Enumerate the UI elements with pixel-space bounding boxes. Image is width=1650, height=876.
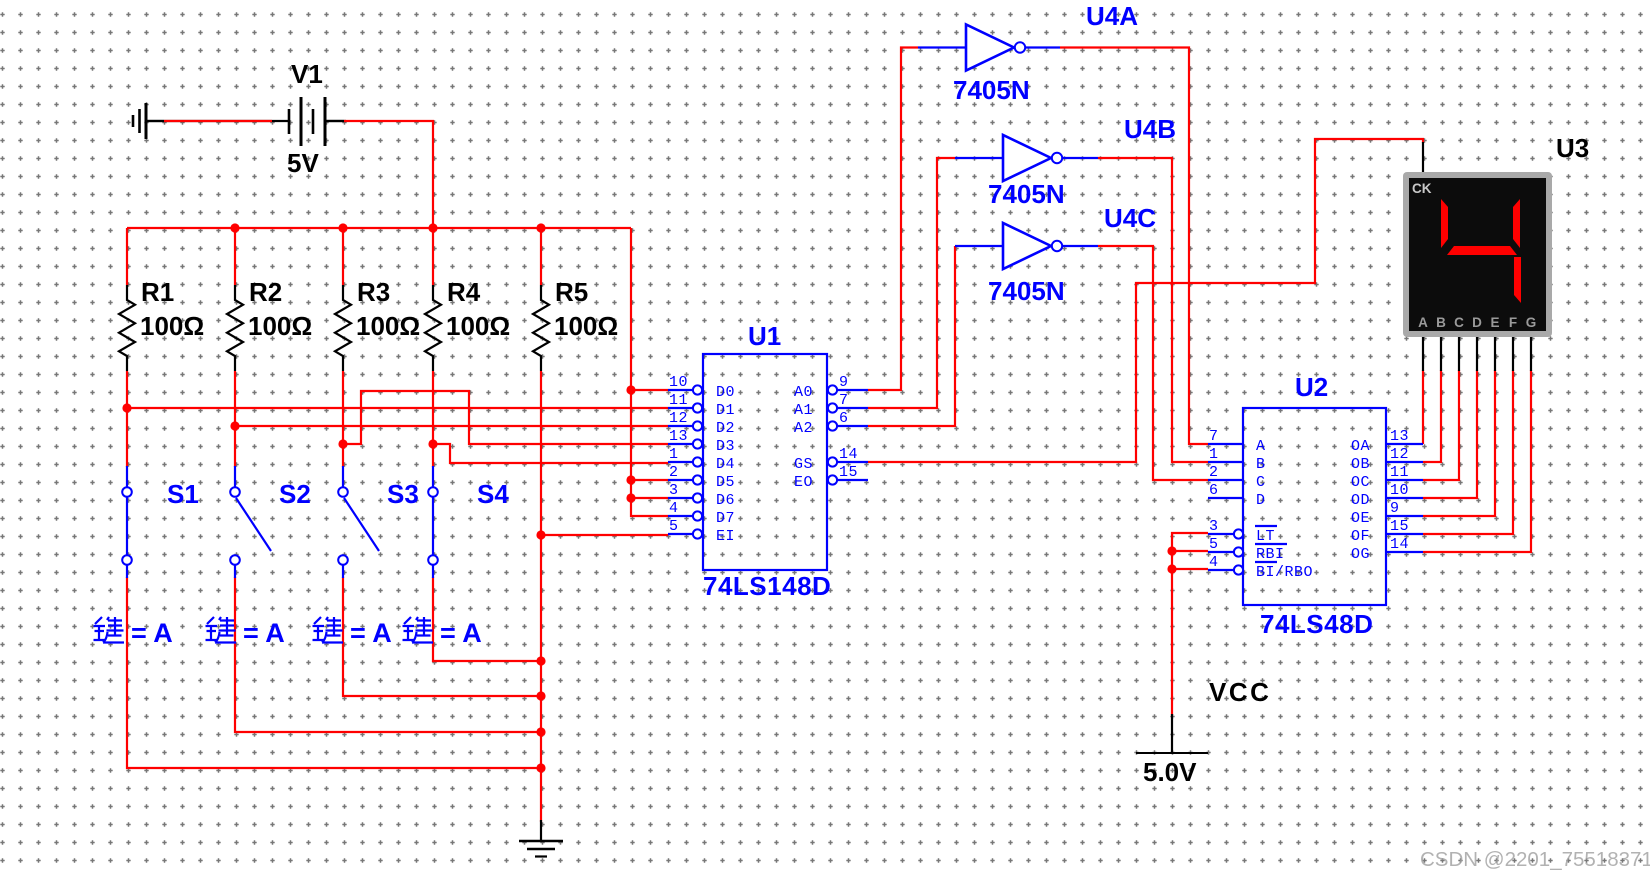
svg-text:7: 7 xyxy=(1209,428,1219,445)
junction D3/S3 xyxy=(338,439,347,448)
svg-text:U3: U3 xyxy=(1556,133,1589,163)
svg-text:2: 2 xyxy=(1209,464,1219,481)
wire U4B output to U2 pin B xyxy=(1098,158,1208,462)
switch S2 (open) xyxy=(230,466,311,578)
svg-text:100Ω: 100Ω xyxy=(446,311,510,341)
U2 pin 12 OB xyxy=(1351,446,1423,473)
IC U2 74LS48D body xyxy=(1243,372,1386,639)
wire R5 bottom to ground xyxy=(540,371,542,822)
wire D2 net xyxy=(235,425,668,427)
svg-text:9: 9 xyxy=(1390,500,1400,517)
svg-text:D6: D6 xyxy=(716,492,735,509)
wire OD to display pin D xyxy=(1423,337,1477,498)
svg-text:OD: OD xyxy=(1351,492,1370,509)
svg-text:R3: R3 xyxy=(357,277,390,307)
U2 pin 4 BI/RBO xyxy=(1208,554,1313,581)
svg-text:11: 11 xyxy=(1390,464,1409,481)
U1 pin 13 D3 xyxy=(668,428,735,455)
U2 pin 10 OD xyxy=(1351,482,1423,509)
U1 pin 1 D4 xyxy=(668,446,735,473)
label key S4 (键 = A) xyxy=(403,617,482,648)
svg-text:7405N: 7405N xyxy=(988,276,1065,306)
U2 pin 1 B xyxy=(1208,446,1266,473)
svg-text:100Ω: 100Ω xyxy=(554,311,618,341)
svg-text:V1: V1 xyxy=(291,59,323,89)
U2 pin 2 C xyxy=(1208,464,1266,491)
wire D1 net xyxy=(127,407,668,409)
svg-text:C: C xyxy=(1454,315,1464,330)
label key S1 (键 = A) xyxy=(94,617,173,648)
svg-text:OG: OG xyxy=(1351,546,1370,563)
svg-text:R5: R5 xyxy=(555,277,588,307)
wire R3 bottom to S3 xyxy=(342,371,344,467)
svg-text:D5: D5 xyxy=(716,474,735,491)
svg-text:S3: S3 xyxy=(387,479,419,509)
display pin letters xyxy=(1418,315,1536,330)
svg-text:D4: D4 xyxy=(716,456,735,473)
junction S4 ground bus xyxy=(536,656,545,665)
resistor R1 xyxy=(119,277,204,371)
svg-text:12: 12 xyxy=(669,410,688,427)
svg-text:R2: R2 xyxy=(249,277,282,307)
svg-text:OC: OC xyxy=(1351,474,1370,491)
wire battery positive to +5V rail xyxy=(325,121,433,228)
svg-text:BI/RBO: BI/RBO xyxy=(1256,564,1313,581)
U1 pin 14 GS xyxy=(794,446,868,473)
svg-text:11: 11 xyxy=(669,392,688,409)
svg-text:74LS148D: 74LS148D xyxy=(703,571,831,601)
U2 pin 14 OG xyxy=(1351,536,1423,563)
wire A1 to U4B input xyxy=(868,158,955,408)
switch S1 (closed) xyxy=(122,466,199,578)
wire OC to display pin C xyxy=(1423,337,1459,480)
svg-text:B: B xyxy=(1436,315,1446,330)
svg-text:GS: GS xyxy=(794,456,813,473)
U2 pin 7 A xyxy=(1208,428,1266,455)
svg-text:R4: R4 xyxy=(447,277,481,307)
svg-text:2: 2 xyxy=(669,464,679,481)
junction D1/S1 xyxy=(122,403,131,412)
wire U4A output to U2 pin A xyxy=(1060,48,1208,445)
junction D4/S4 xyxy=(428,439,437,448)
U1 pin 6 A2 xyxy=(794,410,868,437)
wire R2 bottom to S2 xyxy=(234,371,236,467)
svg-text:10: 10 xyxy=(1390,482,1409,499)
svg-text:7405N: 7405N xyxy=(953,75,1030,105)
svg-text:7: 7 xyxy=(839,392,849,409)
svg-text:14: 14 xyxy=(1390,536,1409,553)
label key S2 (键 = A) xyxy=(206,617,285,648)
svg-text:15: 15 xyxy=(1390,518,1409,535)
svg-text:EO: EO xyxy=(794,474,813,491)
junction D5 tie xyxy=(626,475,635,484)
svg-text:4: 4 xyxy=(669,500,679,517)
wire S1 bottom to ground bus xyxy=(127,577,541,768)
segment B xyxy=(1513,199,1520,248)
wire S3 bottom to ground bus xyxy=(343,577,541,696)
inverter U4B 7405N xyxy=(955,114,1176,209)
wire R1 bottom to S1 xyxy=(126,371,128,467)
wire OA to display pin A xyxy=(1422,337,1424,444)
seven-segment display U3 xyxy=(1403,133,1589,337)
junction rail R5 xyxy=(536,223,545,232)
svg-text:LT: LT xyxy=(1256,528,1275,545)
U1 pin 2 D5 xyxy=(668,464,735,491)
wire A0 to U4A input xyxy=(868,48,918,391)
svg-text:U4C: U4C xyxy=(1104,203,1156,233)
svg-text:D0: D0 xyxy=(716,384,735,401)
label key S3 (键 = A) xyxy=(313,617,392,648)
junction S1 ground bus xyxy=(536,763,545,772)
svg-text:OA: OA xyxy=(1351,438,1370,455)
svg-text:A0: A0 xyxy=(794,384,813,401)
svg-text:R1: R1 xyxy=(141,277,174,307)
svg-text:A: A xyxy=(1418,315,1428,330)
switch S4 (closed) xyxy=(428,466,509,578)
wire OE to display pin E xyxy=(1423,337,1495,516)
junction D0 tie xyxy=(626,385,635,394)
U1 pin 7 A1 xyxy=(794,392,868,419)
switch S3 (open) xyxy=(338,466,419,578)
svg-text:OB: OB xyxy=(1351,456,1370,473)
svg-text:G: G xyxy=(1526,315,1537,330)
wire R4 bottom to S4 xyxy=(432,371,434,467)
ground (bottom) xyxy=(519,820,563,857)
wire U4C output to U2 pin C xyxy=(1098,246,1208,480)
wire D3 net jog xyxy=(343,391,668,444)
wire OF to display pin F xyxy=(1423,337,1513,534)
svg-text:D7: D7 xyxy=(716,510,735,527)
U2 pin 11 OC xyxy=(1351,464,1423,491)
svg-text:E: E xyxy=(1490,315,1499,330)
svg-text:3: 3 xyxy=(669,482,679,499)
wire OG to display pin G xyxy=(1423,337,1531,552)
U2 pin 6 D xyxy=(1208,482,1266,509)
IC U1 74LS148D body xyxy=(703,321,831,601)
svg-text:S1: S1 xyxy=(167,479,199,509)
junction rail R3 xyxy=(338,223,347,232)
svg-text:15: 15 xyxy=(839,464,858,481)
svg-text:6: 6 xyxy=(1209,482,1219,499)
svg-text:S2: S2 xyxy=(279,479,311,509)
svg-text:D1: D1 xyxy=(716,402,735,419)
ground (battery left) xyxy=(133,103,164,139)
svg-text:U4B: U4B xyxy=(1124,114,1176,144)
resistor R5 xyxy=(533,277,618,371)
wire OB to display pin B xyxy=(1423,337,1441,462)
U1 pin 5 EI xyxy=(668,518,735,545)
svg-text:A1: A1 xyxy=(794,402,813,419)
svg-text:U4A: U4A xyxy=(1086,1,1138,31)
svg-text:9: 9 xyxy=(839,374,849,391)
U1 pin 3 D6 xyxy=(668,482,735,509)
svg-text:= A: = A xyxy=(131,618,173,648)
svg-text:14: 14 xyxy=(839,446,858,463)
svg-text:5V: 5V xyxy=(287,148,319,178)
VCC power symbol 5.0V xyxy=(1136,677,1271,787)
svg-text:13: 13 xyxy=(1390,428,1409,445)
svg-text:S4: S4 xyxy=(477,479,509,509)
svg-text:RBI: RBI xyxy=(1256,546,1285,563)
wire EI net xyxy=(541,534,668,536)
svg-text:A2: A2 xyxy=(794,420,813,437)
svg-text:1: 1 xyxy=(669,446,679,463)
U2 pin 15 OF xyxy=(1351,518,1423,545)
junction rail R2 xyxy=(230,223,239,232)
svg-text:CSDN @2201_75518371: CSDN @2201_75518371 xyxy=(1420,848,1650,871)
svg-text:100Ω: 100Ω xyxy=(356,311,420,341)
svg-text:3: 3 xyxy=(1209,518,1219,535)
resistor R3 xyxy=(335,277,420,371)
svg-text:F: F xyxy=(1509,315,1517,330)
U1 pin 10 D0 xyxy=(668,374,735,401)
junction D6 tie xyxy=(626,493,635,502)
segment F xyxy=(1441,199,1448,248)
svg-text:D3: D3 xyxy=(716,438,735,455)
U2 pin 5 RBI xyxy=(1208,536,1287,563)
wire A2 to U4C input xyxy=(868,246,955,426)
wire battery negative lead xyxy=(146,120,272,122)
U1 pin 11 D1 xyxy=(668,392,735,419)
wire VCC to LT/RBI/BI-RBO xyxy=(1172,533,1208,715)
wire R2 top xyxy=(234,228,236,285)
wire R1 top xyxy=(126,228,128,285)
svg-text:5: 5 xyxy=(1209,536,1219,553)
wire R3 top xyxy=(342,228,344,285)
svg-text:VCC: VCC xyxy=(1209,677,1271,707)
wire GS to display CK xyxy=(868,139,1423,462)
svg-text:A: A xyxy=(1256,438,1266,455)
svg-text:5.0V: 5.0V xyxy=(1143,757,1197,787)
U2 pin 13 OA xyxy=(1351,428,1423,455)
wire +5V top rail xyxy=(127,227,631,229)
junction EI/R5 xyxy=(536,530,545,539)
junction BI-RBO/VCC xyxy=(1167,564,1176,573)
svg-text:5: 5 xyxy=(669,518,679,535)
svg-text:10: 10 xyxy=(669,374,688,391)
svg-text:CK: CK xyxy=(1412,181,1432,196)
U1 pin 12 D2 xyxy=(668,410,735,437)
wire S2 bottom to ground bus xyxy=(235,577,541,732)
svg-text:C: C xyxy=(1256,474,1266,491)
U1 pin 15 EO xyxy=(794,464,868,491)
wire R5 top xyxy=(540,228,542,285)
junction S2 ground bus xyxy=(536,727,545,736)
U1 pin 4 D7 xyxy=(668,500,735,527)
svg-text:D: D xyxy=(1256,492,1266,509)
segment G xyxy=(1447,246,1517,255)
junction RBI/VCC xyxy=(1167,546,1176,555)
junction S3 ground bus xyxy=(536,691,545,700)
U2 pin 3 LT xyxy=(1208,518,1277,545)
wire S4 bottom to ground bus xyxy=(433,577,541,661)
U1 pin 9 A0 xyxy=(794,374,868,401)
svg-text:12: 12 xyxy=(1390,446,1409,463)
svg-text:7405N: 7405N xyxy=(988,179,1065,209)
svg-text:EI: EI xyxy=(716,528,735,545)
resistor R4 xyxy=(425,277,510,371)
resistor R2 xyxy=(227,277,312,371)
svg-text:U1: U1 xyxy=(748,321,781,351)
svg-text:100Ω: 100Ω xyxy=(248,311,312,341)
segment C xyxy=(1514,257,1521,303)
U2 pin 9 OE xyxy=(1351,500,1423,527)
inverter U4A 7405N xyxy=(918,1,1138,105)
svg-text:74LS48D: 74LS48D xyxy=(1260,609,1373,639)
junction rail battery/R4 xyxy=(428,223,437,232)
battery V1 xyxy=(272,59,344,178)
svg-text:1: 1 xyxy=(1209,446,1219,463)
svg-text:100Ω: 100Ω xyxy=(140,311,204,341)
svg-text:D: D xyxy=(1472,315,1482,330)
wire rail right drop to D0/D5/D6/D7 xyxy=(631,228,668,516)
svg-text:U2: U2 xyxy=(1295,372,1328,402)
junction D2/S2 xyxy=(230,421,239,430)
svg-text:B: B xyxy=(1256,456,1266,473)
svg-text:D2: D2 xyxy=(716,420,735,437)
wire R4 top (battery junction) xyxy=(432,228,434,285)
svg-text:6: 6 xyxy=(839,410,849,427)
svg-text:13: 13 xyxy=(669,428,688,445)
wire D4 net jog xyxy=(433,444,668,463)
svg-text:4: 4 xyxy=(1209,554,1219,571)
svg-text:OF: OF xyxy=(1351,528,1370,545)
svg-text:OE: OE xyxy=(1351,510,1370,527)
inverter U4C 7405N xyxy=(955,203,1156,306)
